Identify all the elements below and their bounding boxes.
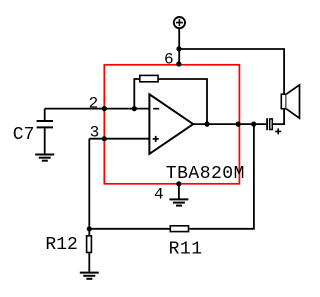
svg-text:C7: C7 bbox=[13, 125, 35, 145]
svg-text:R12: R12 bbox=[45, 235, 77, 255]
svg-text:6: 6 bbox=[164, 50, 174, 68]
feedback resistor (internal) bbox=[140, 75, 158, 81]
svg-text:3: 3 bbox=[90, 124, 100, 142]
wire capacitor to speaker bottom bbox=[273, 109, 285, 124]
node feedback tap bbox=[132, 106, 137, 111]
svg-text:2: 2 bbox=[89, 95, 99, 113]
resistor R12 bbox=[87, 229, 92, 272]
pin 6 node on box bbox=[176, 61, 181, 66]
node output pin on box bbox=[236, 122, 241, 127]
wire junction to R11 left bbox=[89, 228, 169, 230]
pin 4 node on box bottom bbox=[176, 181, 181, 186]
wire op-amp output to capacitor bbox=[193, 123, 266, 125]
svg-text:TBA820M: TBA820M bbox=[166, 164, 245, 184]
ground (below C7) bbox=[35, 155, 54, 161]
capacitor C7 bbox=[37, 109, 53, 154]
wire supply node to speaker top bbox=[179, 49, 284, 94]
node supply junction bbox=[176, 46, 181, 51]
ground (pin 4) bbox=[169, 199, 188, 205]
wire C7 to inverting input (pin 2) bbox=[45, 108, 150, 110]
svg-text:4: 4 bbox=[154, 185, 164, 203]
pin 3 node on box bbox=[102, 136, 107, 141]
svg-text:R11: R11 bbox=[169, 239, 203, 259]
feedback wire from inverting input bbox=[134, 79, 207, 124]
resistor R11 bbox=[170, 226, 188, 232]
op-amp plus input mark bbox=[153, 136, 159, 142]
wire output branch down to R11 bbox=[189, 124, 254, 229]
node R12 top junction bbox=[87, 226, 92, 231]
capacitor plus mark bbox=[275, 128, 281, 134]
wire pin 3 to non-inverting input bbox=[89, 138, 149, 140]
node feedback to output bbox=[204, 122, 209, 127]
pin 2 node on box bbox=[102, 106, 107, 111]
wire pin 4 stem bbox=[178, 184, 180, 199]
speaker LS1 bbox=[281, 85, 299, 118]
wire power stem to pin 6 bbox=[178, 28, 180, 64]
capacitor C (output electrolytic) bbox=[267, 118, 272, 130]
op-amp minus input mark bbox=[153, 108, 159, 110]
node output branch bbox=[251, 122, 256, 127]
wire pin 3 down to R12 junction bbox=[88, 139, 90, 229]
ground (below R12) bbox=[80, 273, 99, 279]
IC outline TBA820M (red box) bbox=[104, 65, 239, 184]
op-amp U1 triangle bbox=[149, 94, 193, 154]
power supply V+ symbol bbox=[174, 17, 185, 28]
